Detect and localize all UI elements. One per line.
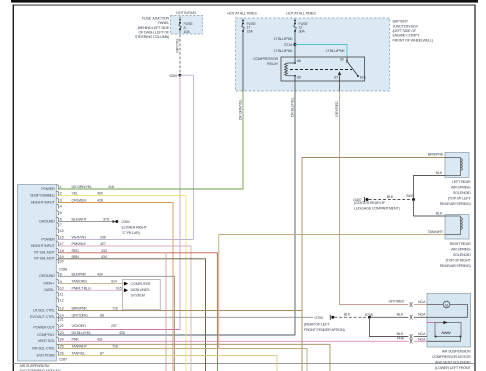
wire LT BLU/PNK S71A to relay 86 xyxy=(294,45,296,58)
wire olive pin ? down xyxy=(58,344,330,371)
svg-text:85: 85 xyxy=(297,76,301,80)
wire pin 16 horizontal xyxy=(58,239,194,241)
wire PNK into box xyxy=(414,340,427,342)
wire ORG/BLK pin 3 down xyxy=(58,203,173,371)
svg-text:G700: G700 xyxy=(315,316,323,320)
svg-text:5: 5 xyxy=(60,211,62,215)
svg-text:GRY/RED: GRY/RED xyxy=(389,300,405,304)
battery junction box xyxy=(236,18,390,91)
svg-text:BLK: BLK xyxy=(436,171,443,175)
pin 17 xyxy=(57,242,59,247)
svg-text:G301: G301 xyxy=(122,220,130,224)
wire TAN/YEL pin 26 down xyxy=(58,356,277,371)
svg-text:REAR AIR SPRING): REAR AIR SPRING) xyxy=(440,202,472,206)
pin 15 xyxy=(57,229,59,234)
svg-text:6: 6 xyxy=(60,218,62,222)
svg-text:LR SOL CTRL: LR SOL CTRL xyxy=(33,308,55,312)
svg-text:DATA LINES: DATA LINES xyxy=(131,288,151,292)
wire DK BLU/YEL relay 85 to pin 23 xyxy=(294,81,296,91)
right rear air spring solenoid box xyxy=(445,215,469,240)
svg-text:21: 21 xyxy=(60,318,64,322)
vent solenoid coil xyxy=(442,332,451,334)
pin 22 xyxy=(57,324,59,329)
wire LT BLU/PNK fuse 12 to S71A xyxy=(294,32,296,45)
svg-text:HOT AT ALL TIMES: HOT AT ALL TIMES xyxy=(227,12,257,16)
wire PNK/LT BLU pin 10 to data arrow xyxy=(58,289,124,291)
wire TAN/WHT pin 25 to RR solenoid xyxy=(58,235,445,371)
svg-text:COMP RLY: COMP RLY xyxy=(37,333,55,337)
pin 13 xyxy=(57,306,59,311)
wire BLK into box xyxy=(414,336,427,338)
svg-text:PNK: PNK xyxy=(72,337,80,341)
pin 4 xyxy=(57,204,59,209)
svg-text:RIGHT REAR: RIGHT REAR xyxy=(450,242,471,246)
svg-text:15A: 15A xyxy=(247,29,254,33)
svg-text:HOT AT ALL TIMES: HOT AT ALL TIMES xyxy=(286,12,316,16)
svg-text:(BEHIND LEFT SIDE: (BEHIND LEFT SIDE xyxy=(137,26,169,30)
svg-text:NCA: NCA xyxy=(418,337,426,341)
arrow into fuse 17 xyxy=(242,20,244,22)
svg-text:JUNCTION BOX: JUNCTION BOX xyxy=(393,24,419,28)
wire BLK S708 to compressor NCA2 xyxy=(370,316,409,318)
svg-text:LEFT REAR: LEFT REAR xyxy=(452,180,471,184)
svg-text:RED: RED xyxy=(72,249,80,253)
wire VIO/ORG pin 22 from S269 xyxy=(58,329,180,331)
relay coil xyxy=(285,63,296,76)
svg-text:SOLENOID: SOLENOID xyxy=(453,191,471,195)
ground symbol G407 xyxy=(364,197,366,202)
svg-text:431: 431 xyxy=(97,337,103,341)
relay pin 30 xyxy=(346,57,348,61)
page border top xyxy=(13,4,476,7)
svg-text:7: 7 xyxy=(60,223,62,227)
wire PNK/BLK pin 17 down xyxy=(58,246,191,371)
node S708 xyxy=(368,316,371,319)
arrow into fuse 12 xyxy=(294,20,296,22)
wire dropper (left) xyxy=(165,253,167,371)
svg-text:STEERING COLUMN): STEERING COLUMN) xyxy=(135,35,170,39)
svg-text:AIR SPRING: AIR SPRING xyxy=(451,186,471,190)
svg-text:427: 427 xyxy=(100,242,106,246)
svg-text:BLK/WHT: BLK/WHT xyxy=(72,218,88,222)
wire BLK dashed G407 to S405 xyxy=(369,199,412,201)
svg-text:SOLENOID: SOLENOID xyxy=(453,253,471,257)
arrow into fuse 8 xyxy=(179,19,181,21)
svg-text:PANEL: PANEL xyxy=(158,21,169,25)
wire pin 14 to G700 xyxy=(58,316,313,318)
svg-text:8: 8 xyxy=(60,273,62,277)
svg-text:30: 30 xyxy=(340,58,344,62)
pin 16 xyxy=(57,235,59,240)
svg-text:C287: C287 xyxy=(59,357,67,361)
svg-text:3: 3 xyxy=(60,199,62,203)
svg-text:LT BLU/PNK: LT BLU/PNK xyxy=(274,49,294,53)
node S405 xyxy=(412,198,415,201)
pin 11 xyxy=(57,292,59,297)
svg-text:15: 15 xyxy=(60,229,64,233)
connector NCA row 4 xyxy=(410,339,413,344)
svg-text:(TOP OF RIGHT: (TOP OF RIGHT xyxy=(446,259,472,263)
svg-text:REAR AIR SPRING): REAR AIR SPRING) xyxy=(440,264,472,268)
svg-text:18: 18 xyxy=(60,249,64,253)
wire feed stub fuse 17 xyxy=(242,19,244,22)
svg-text:HOT IN RUN: HOT IN RUN xyxy=(176,11,196,15)
svg-text:428: 428 xyxy=(97,199,103,203)
svg-text:EVO ACT CTRL: EVO ACT CTRL xyxy=(30,315,54,319)
svg-text:9: 9 xyxy=(60,280,62,284)
svg-text:BLK: BLK xyxy=(344,313,351,317)
arrow data line 2 xyxy=(124,288,128,292)
svg-text:4: 4 xyxy=(60,205,62,209)
svg-text:S269: S269 xyxy=(169,74,177,78)
svg-text:VENT SOL: VENT SOL xyxy=(38,339,55,343)
compressor assembly box xyxy=(427,294,471,348)
relay pin 86 xyxy=(294,57,296,63)
wire VIO/ORG vertical S269 to pin 22 xyxy=(179,75,181,329)
wire relay 87 down stub xyxy=(339,76,341,82)
svg-text:PNK: PNK xyxy=(397,337,405,341)
pin 20 xyxy=(57,259,59,264)
wire GRY/RED into box xyxy=(414,304,427,306)
wire vent to PNK row xyxy=(427,337,461,342)
svg-text:23: 23 xyxy=(60,331,64,335)
svg-text:RT SHL MOT: RT SHL MOT xyxy=(34,257,55,261)
LR solenoid coil xyxy=(445,158,462,176)
svg-text:SUSP DISABLE: SUSP DISABLE xyxy=(30,193,55,197)
svg-text:12: 12 xyxy=(60,299,64,303)
svg-text:BATTERY: BATTERY xyxy=(393,20,409,24)
svg-text:86: 86 xyxy=(100,313,104,317)
air suspension module box xyxy=(18,185,57,362)
svg-text:TAN/WHT: TAN/WHT xyxy=(428,230,444,234)
pin 8 xyxy=(57,272,59,277)
svg-text:17: 17 xyxy=(60,242,64,246)
wire BLK/WHT pin 6 to G301 xyxy=(58,221,113,223)
svg-text:WHT/VIO: WHT/VIO xyxy=(72,236,87,240)
svg-text:PNK/LT BLU: PNK/LT BLU xyxy=(72,286,91,290)
connector NCA row 3 xyxy=(410,334,413,339)
svg-text:NCA: NCA xyxy=(418,313,426,317)
svg-text:GRY/ORG: GRY/ORG xyxy=(72,313,88,317)
svg-text:BRN/PNK: BRN/PNK xyxy=(72,307,88,311)
wire S269 branch right xyxy=(180,74,194,76)
svg-text:716: 716 xyxy=(112,307,118,311)
page top black strip xyxy=(11,0,478,3)
relay pin 85 xyxy=(294,76,296,81)
svg-text:HEIGHT INPUT: HEIGHT INPUT xyxy=(31,244,56,248)
svg-text:ORG/BLK: ORG/BLK xyxy=(72,199,88,203)
svg-text:(LOWER LEFT FRONT: (LOWER LEFT FRONT xyxy=(435,366,471,370)
vent solenoid xyxy=(427,322,435,324)
wire fuse 8 feed stub xyxy=(179,17,181,22)
svg-text:DK GRN/YEL: DK GRN/YEL xyxy=(72,185,93,189)
svg-text:PNK/BLK: PNK/BLK xyxy=(72,242,87,246)
svg-text:237: 237 xyxy=(111,324,117,328)
arrow data line 1 xyxy=(124,282,128,286)
svg-text:DK BLU/YEL: DK BLU/YEL xyxy=(290,97,294,117)
svg-text:435: 435 xyxy=(119,331,125,335)
svg-text:LT BLU/PNK: LT BLU/PNK xyxy=(274,37,294,41)
svg-text:914: 914 xyxy=(111,280,117,284)
svg-text:AIR SPRING: AIR SPRING xyxy=(451,248,471,252)
svg-text:AND VENT SOLENOID: AND VENT SOLENOID xyxy=(435,361,471,365)
svg-text:COMPUTER: COMPUTER xyxy=(131,282,151,286)
svg-text:FUSE JUNCTION: FUSE JUNCTION xyxy=(142,16,170,20)
pin 1 xyxy=(57,185,59,190)
fuse junction panel box xyxy=(171,16,203,35)
svg-text:BRN: BRN xyxy=(72,255,80,259)
svg-text:87A: 87A xyxy=(360,75,367,79)
svg-text:RT SHL MOT: RT SHL MOT xyxy=(34,251,55,255)
svg-text:19: 19 xyxy=(60,255,64,259)
compressor motor M1 xyxy=(427,304,443,306)
svg-text:NCA: NCA xyxy=(418,332,426,336)
svg-text:400: 400 xyxy=(97,192,103,196)
svg-text:DATA +: DATA + xyxy=(43,281,55,285)
svg-text:16: 16 xyxy=(60,236,64,240)
node S71A xyxy=(294,43,297,46)
fuse F17 symbol xyxy=(242,22,244,24)
pin 10 xyxy=(57,286,59,291)
svg-text:POWER: POWER xyxy=(41,187,55,191)
relay pin 87 contact arrow xyxy=(338,72,340,76)
svg-text:11: 11 xyxy=(60,293,64,297)
svg-text:915: 915 xyxy=(116,286,122,290)
wire YEL pin 2 down xyxy=(58,196,186,371)
svg-text:COMPRESSOR: COMPRESSOR xyxy=(253,57,278,61)
svg-text:NCA: NCA xyxy=(418,300,426,304)
wire BLK into box xyxy=(414,316,427,318)
wire BLK S405 to RR solenoid xyxy=(414,200,446,217)
svg-text:24: 24 xyxy=(60,338,64,342)
wire DK GRN/YEL fuse 17 to pin 1 xyxy=(242,32,244,91)
wire LT BLU/PNK S71A to relay 30 xyxy=(295,45,347,58)
svg-text:296: 296 xyxy=(100,236,106,240)
wire TAN/ORG pin 9 to data arrow xyxy=(58,283,124,285)
svg-text:434: 434 xyxy=(101,255,107,259)
svg-text:1: 1 xyxy=(60,185,62,189)
svg-text:DK BLU/YEL: DK BLU/YEL xyxy=(72,331,92,335)
relay linkage (dashed) xyxy=(290,69,352,71)
wire GRY/RED relay 87 to compressor xyxy=(339,81,341,91)
svg-text:VIO/ORG: VIO/ORG xyxy=(72,324,87,328)
svg-text:LUGGAGE COMPARTMENT): LUGGAGE COMPARTMENT) xyxy=(354,207,400,211)
svg-text:2: 2 xyxy=(60,192,62,196)
RR solenoid coil xyxy=(445,216,462,235)
wire WHT/VIO vertical to pin 16 xyxy=(193,75,195,239)
svg-text:430: 430 xyxy=(97,272,103,276)
svg-text:TAN/WHT: TAN/WHT xyxy=(72,345,88,349)
compressor relay box U1 xyxy=(281,57,365,81)
svg-text:22: 22 xyxy=(60,324,64,328)
svg-text:GRY/YEL: GRY/YEL xyxy=(175,38,179,53)
wire BRN/PNK pin 13 to LR solenoid xyxy=(58,158,445,371)
svg-text:30A: 30A xyxy=(299,29,306,33)
wire GRY/YEL dashed from fuse 8 to S269 xyxy=(179,30,181,75)
svg-text:YEL: YEL xyxy=(72,192,79,196)
svg-text:(CENTER REAR OF: (CENTER REAR OF xyxy=(354,201,386,205)
pin 3 xyxy=(57,198,59,203)
vent solenoid arrow xyxy=(443,321,447,325)
ground symbol G700 xyxy=(329,315,331,320)
computer data lines box xyxy=(123,279,161,310)
svg-text:(REAR OF LEFT: (REAR OF LEFT xyxy=(304,322,330,326)
svg-text:26: 26 xyxy=(60,352,64,356)
wire feed stub fuse 12 xyxy=(294,19,296,22)
page border left xyxy=(13,5,14,371)
page border right xyxy=(474,5,475,371)
wire BLK dashed G700 to S708 xyxy=(335,316,369,318)
svg-text:POWER OUT: POWER OUT xyxy=(33,326,55,330)
svg-text:GRY/RED: GRY/RED xyxy=(335,101,339,117)
svg-text:DATA -: DATA - xyxy=(44,288,55,292)
svg-text:BRN/PNK: BRN/PNK xyxy=(428,153,444,157)
wire BRN pin 19 down xyxy=(58,259,206,371)
left rear air spring solenoid box xyxy=(445,153,469,178)
svg-text:OF DASH, LEFT OF: OF DASH, LEFT OF xyxy=(138,31,169,35)
pin 7 xyxy=(57,223,59,228)
vent solenoid connection dots xyxy=(435,336,437,338)
svg-text:86: 86 xyxy=(297,59,301,63)
svg-text:TAN/ORG: TAN/ORG xyxy=(72,280,88,284)
svg-text:AIR SUSPENSION/: AIR SUSPENSION/ xyxy=(20,364,51,368)
pin 9 xyxy=(57,279,59,284)
wire BLK S708 down to NCA3 row xyxy=(370,317,409,336)
svg-text:418: 418 xyxy=(108,185,114,189)
wire BLK/PNK pin 8 down xyxy=(58,276,175,371)
svg-text:FRONT OF WHEELWELL): FRONT OF WHEELWELL) xyxy=(393,38,434,42)
svg-text:BLK: BLK xyxy=(397,332,404,336)
svg-text:BLK: BLK xyxy=(397,313,404,317)
svg-text:FRONT FENDER APRON): FRONT FENDER APRON) xyxy=(304,328,346,332)
svg-text:ENGINE COMP'T,: ENGINE COMP'T, xyxy=(393,34,421,38)
svg-text:10A: 10A xyxy=(184,30,191,34)
svg-text:DK GRN/YEL: DK GRN/YEL xyxy=(238,99,242,120)
svg-text:LT BLU/PNK: LT BLU/PNK xyxy=(326,49,346,53)
svg-text:BLK: BLK xyxy=(436,211,443,215)
svg-text:20: 20 xyxy=(60,260,64,264)
svg-text:433: 433 xyxy=(101,249,107,253)
svg-text:M: M xyxy=(445,303,448,307)
wire RED pin 18 down xyxy=(58,253,217,371)
svg-text:(LEFT SIDE OF: (LEFT SIDE OF xyxy=(393,29,417,33)
svg-text:GROUND: GROUND xyxy=(39,219,55,223)
pin 24 xyxy=(57,337,59,342)
pin 21 xyxy=(57,317,59,322)
svg-text:SYSTEM: SYSTEM xyxy=(131,293,145,297)
pin 19 xyxy=(57,254,59,259)
svg-text:RELAY: RELAY xyxy=(267,62,279,66)
connector NCA row 2 xyxy=(410,315,413,320)
ground arrow G301 xyxy=(113,220,116,223)
svg-text:BLK: BLK xyxy=(387,195,394,199)
pin 14 xyxy=(57,313,59,318)
svg-text:HEIGHT INPUT: HEIGHT INPUT xyxy=(31,200,56,204)
pin 6 xyxy=(57,217,59,222)
svg-text:13: 13 xyxy=(60,307,64,311)
svg-text:25: 25 xyxy=(60,345,64,349)
svg-text:AIR SUSPENSION: AIR SUSPENSION xyxy=(442,350,471,354)
pin 2 xyxy=(57,191,59,196)
svg-text:BLK/PNK: BLK/PNK xyxy=(72,272,87,276)
wire PNK pin 24 to compressor NCA4 xyxy=(58,340,409,342)
pin 26 xyxy=(57,351,59,356)
node S269 xyxy=(179,74,182,77)
fuse F12 symbol xyxy=(294,22,296,24)
svg-text:POWER: POWER xyxy=(41,237,55,241)
svg-text:GROUND: GROUND xyxy=(39,274,55,278)
svg-text:10: 10 xyxy=(60,287,64,291)
svg-text:EVO POSN: EVO POSN xyxy=(37,353,55,357)
connector NCA row 1 xyxy=(410,302,413,307)
svg-text:C288: C288 xyxy=(59,268,67,272)
svg-text:S405: S405 xyxy=(406,194,414,198)
svg-text:718: 718 xyxy=(112,345,118,349)
pin 25 xyxy=(57,344,59,349)
svg-text:TAN/YEL: TAN/YEL xyxy=(72,352,86,356)
svg-text:COMPRESSOR MOTOR: COMPRESSOR MOTOR xyxy=(432,355,471,359)
fuse F8 symbol xyxy=(179,22,181,24)
page border bottom xyxy=(13,362,476,365)
pin 12 xyxy=(57,298,59,303)
svg-text:87: 87 xyxy=(334,76,338,80)
pin 23 xyxy=(57,331,59,336)
svg-text:S71A: S71A xyxy=(284,43,293,47)
wire BLK LR solenoid to S405 xyxy=(414,176,446,200)
svg-text:RR SOL CTRL: RR SOL CTRL xyxy=(32,346,54,350)
svg-text:375: 375 xyxy=(103,218,109,222)
svg-text:"C" PILLAR): "C" PILLAR) xyxy=(122,231,141,235)
svg-text:(LOWER RIGHT: (LOWER RIGHT xyxy=(122,226,148,230)
relay switch arm 30 to 87A xyxy=(348,62,358,75)
pin 18 xyxy=(57,248,59,253)
svg-text:S708: S708 xyxy=(365,313,373,317)
pin 5 xyxy=(57,211,59,216)
svg-text:87: 87 xyxy=(100,352,104,356)
svg-text:(TOP OF LEFT: (TOP OF LEFT xyxy=(448,197,472,201)
